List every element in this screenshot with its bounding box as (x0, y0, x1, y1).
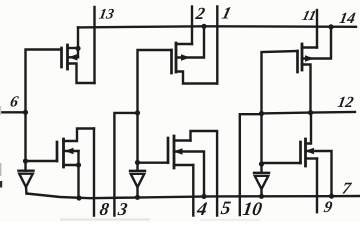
svg-text:2: 2 (194, 4, 207, 23)
svg-text:5: 5 (220, 198, 233, 219)
transistor VT2 NMOS bottom-left: gate lead (26, 160, 58, 161)
transistor VT1 source/bulk bus to rail (77, 27, 79, 57)
diode VD1 triangle (19, 174, 33, 187)
node pin 10 tee (259, 111, 264, 116)
node VT3 bulk to rail junction (201, 24, 206, 29)
transistor VT4 source stub to pin 4 (174, 164, 193, 166)
diode VD2 anode wire to rail (136, 187, 138, 197)
wire bottom rail VSS (pin 7 net) (27, 194, 360, 199)
node pin 6 tee (23, 110, 28, 115)
transistor VT5 PMOS top-right: gate plate (296, 51, 299, 72)
transistor VT6 bulk stub with arrow to rail (306, 151, 332, 196)
transistor VT1 channel (66, 45, 69, 69)
svg-text:9: 9 (322, 199, 333, 216)
transistor VT4 drain stub to pin 5 loop (174, 139, 191, 141)
wire pin 5 stub (191, 131, 218, 216)
svg-text:11: 11 (301, 9, 318, 24)
node VD3 to rail junction (259, 194, 264, 199)
wire input net 1 vertical (pin 6 to gates) (26, 50, 62, 171)
transistor VT4 NMOS bottom-middle: gate lead (138, 161, 169, 163)
transistor VT6 gate plate (299, 142, 302, 163)
transistor VT5 source stub to pin 11 (302, 46, 317, 48)
diode VD1 anode wire to rail (25, 187, 28, 194)
svg-text:12: 12 (336, 94, 355, 111)
transistor VT5 bulk stub with arrow to rail (302, 27, 331, 59)
node VD2 to rail junction (135, 195, 140, 200)
wire pin 6 lead (2, 111, 26, 113)
svg-text:6: 6 (9, 93, 20, 110)
transistor VT3 source stub to pin 2 (176, 43, 192, 45)
node VT6 bulk to rail junction (329, 194, 334, 199)
transistor VT3 bulk stub with arrow to rail (176, 26, 204, 57)
svg-text:7: 7 (341, 178, 353, 197)
diode VD2 triangle (131, 174, 145, 187)
wire input net 2 vertical (pin 3 to gates) (138, 50, 172, 171)
node VT2 source junction (76, 162, 81, 167)
transistor VT2 bus to VSS rail (77, 151, 79, 198)
transistor VT2 drain stub loop to pin 8 (64, 129, 95, 142)
transistor VT6 source stub to pin 9 (306, 157, 318, 159)
diode VD2 cathode bar (130, 170, 145, 172)
transistor VT4 channel (173, 136, 176, 168)
transistor VT6 channel (304, 139, 307, 166)
wire pin 11 stub (316, 10, 318, 48)
wire pin 3 stub (114, 113, 137, 216)
svg-text:3: 3 (116, 199, 129, 219)
wire pin 13 stub (93, 7, 95, 83)
scan artifact left edge (0, 181, 2, 188)
node VT5 bulk to rail junction (328, 24, 333, 29)
svg-text:10: 10 (241, 199, 263, 220)
wire pin 1 stub (216, 7, 218, 84)
diode VD3 cathode bar (254, 172, 269, 174)
wire pin 9 stub (316, 159, 318, 213)
transistor VT1 PMOS top-left: gate plate (60, 48, 63, 67)
node pin 3 tee (135, 110, 140, 115)
diode VD3 top connection node (259, 161, 264, 166)
transistor VT3 drain loop to pin 1 (176, 72, 217, 84)
diode VD1 top connection node (23, 158, 28, 163)
transistor VT2 gate plate (56, 142, 59, 161)
wire pin 10 stub (240, 114, 262, 215)
transistor VT4 gate plate (167, 138, 170, 163)
svg-text:4: 4 (195, 199, 208, 220)
transistor VT1 drain loop to pin 13 (68, 64, 95, 84)
transistor VT6 NMOS bottom-right: gate lead (262, 162, 301, 164)
svg-text:1: 1 (220, 4, 233, 23)
transistor VT6 drain stub up to pin 12 line (306, 113, 312, 144)
transistor VT5 drain stub down to pin 12 line (302, 65, 311, 113)
transistor VT4 bulk stub with arrow to rail (174, 152, 204, 197)
node pin 12 drain junction (308, 110, 313, 115)
diode VD3 anode wire to rail (260, 189, 262, 196)
transistor VT2 source stub (64, 164, 79, 166)
transistor VT5 channel (301, 44, 304, 70)
node VT2 bus to rail junction (76, 195, 81, 200)
wire pin 4 stub (192, 165, 194, 216)
svg-text:13: 13 (98, 6, 115, 22)
transistor VT1 source stub (68, 47, 79, 49)
transistor VT2 bulk stub with arrow (65, 150, 79, 152)
wire input net 3 vertical (pin 10 to gates) (262, 51, 298, 173)
transistor VT1 bulk stub with arrow (69, 56, 78, 58)
node VT4 bulk to rail junction (201, 194, 206, 199)
node VT1 source junction (75, 46, 80, 51)
wire pin 8 stub (93, 129, 95, 216)
wire pin 12 lead (262, 112, 356, 113)
transistor VT3 PMOS top-middle: gate plate (170, 50, 173, 73)
diode VD1 cathode bar (19, 169, 34, 171)
wire top rail VDD (pin 14 net) (78, 26, 356, 27)
wire pin 2 stub (191, 7, 193, 45)
svg-text:14: 14 (338, 10, 357, 27)
diode VD2 top connection node (135, 160, 140, 165)
transistor VT3 channel (175, 43, 178, 72)
svg-text:8: 8 (98, 199, 110, 219)
transistor VT2 channel (62, 139, 65, 167)
diode VD3 triangle (255, 176, 269, 189)
